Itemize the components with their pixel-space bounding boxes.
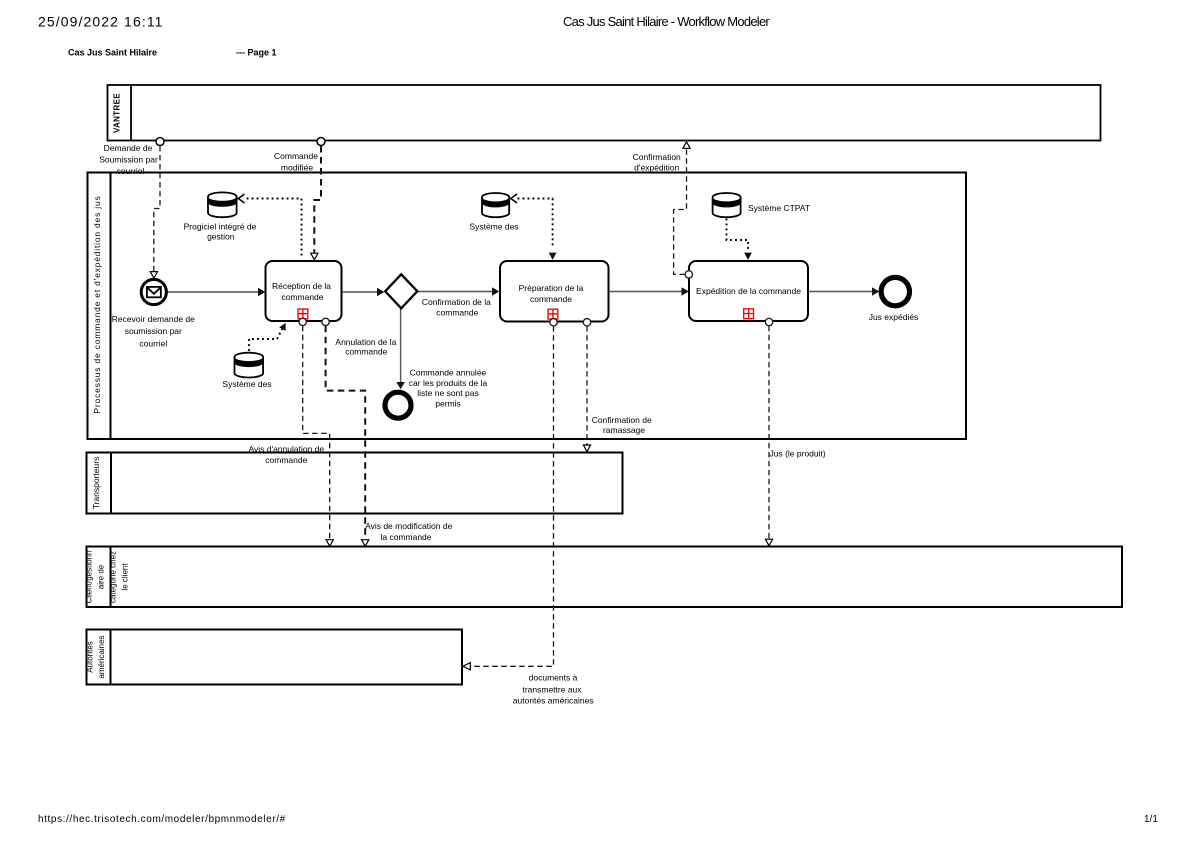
svg-text:Avis de modification de: Avis de modification de [365, 521, 453, 531]
svg-text:Préparation de la: Préparation de la [519, 283, 584, 293]
svg-text:--- Page 1: --- Page 1 [236, 48, 277, 58]
svg-text:Avis d'annulation de: Avis d'annulation de [248, 444, 324, 454]
svg-text:Système des: Système des [222, 379, 271, 389]
svg-text:permis: permis [435, 398, 461, 408]
svg-text:Système des: Système des [469, 222, 518, 232]
svg-text:catégorie chez: catégorie chez [109, 551, 118, 603]
svg-text:Client/gestionn: Client/gestionn [85, 551, 94, 604]
svg-text:Commande: Commande [274, 151, 318, 161]
svg-text:gestion: gestion [207, 232, 235, 242]
svg-text:Transporteurs: Transporteurs [91, 457, 101, 510]
svg-text:Système CTPAT: Système CTPAT [748, 203, 810, 213]
svg-text:Annulation de la: Annulation de la [335, 337, 396, 347]
svg-text:25/09/2022 16:11: 25/09/2022 16:11 [38, 14, 164, 30]
svg-text:documents à: documents à [529, 673, 578, 683]
svg-text:transmettre aux: transmettre aux [522, 685, 582, 695]
svg-text:Expédition de la commande: Expédition de la commande [696, 286, 801, 296]
svg-text:Soumission par: Soumission par [99, 155, 158, 165]
svg-text:Commande annulée: Commande annulée [410, 368, 487, 378]
svg-text:courriel: courriel [117, 166, 145, 176]
svg-text:commande: commande [265, 455, 307, 465]
svg-text:Jus expédiés: Jus expédiés [869, 312, 919, 322]
svg-text:1/1: 1/1 [1144, 814, 1158, 825]
svg-text:liste ne sont pas: liste ne sont pas [417, 388, 478, 398]
svg-text:VANTREE: VANTREE [113, 93, 122, 133]
svg-text:soumission par: soumission par [125, 326, 182, 336]
svg-text:Progiciel intégré de: Progiciel intégré de [184, 222, 257, 232]
svg-text:Cas Jus Saint Hilaire - Workfl: Cas Jus Saint Hilaire - Workflow Modeler [563, 14, 770, 29]
svg-text:Confirmation de la: Confirmation de la [422, 297, 491, 307]
svg-text:commande: commande [436, 308, 478, 318]
svg-text:autorités américaines: autorités américaines [513, 696, 594, 706]
svg-text:le client: le client [121, 563, 130, 591]
svg-text:la commande: la commande [380, 532, 431, 542]
svg-text:aire de: aire de [97, 564, 106, 589]
svg-text:commande: commande [530, 294, 572, 304]
svg-text:Réception de la: Réception de la [272, 281, 331, 291]
svg-text:Jus (le produit): Jus (le produit) [770, 449, 826, 459]
svg-text:https://hec.trisotech.com/mode: https://hec.trisotech.com/modeler/bpmnmo… [38, 814, 286, 825]
svg-text:courriel: courriel [139, 339, 167, 349]
svg-text:Confirmation de: Confirmation de [592, 415, 652, 425]
svg-text:Processus de commande et d'exp: Processus de commande et d'expédition de… [92, 195, 102, 413]
svg-text:ramassage: ramassage [603, 425, 645, 435]
svg-text:Demande de: Demande de [104, 143, 153, 153]
svg-text:Confirmation: Confirmation [633, 152, 681, 162]
svg-text:modifiée: modifiée [281, 163, 313, 173]
svg-text:car les produits de la: car les produits de la [409, 378, 488, 388]
svg-text:commande: commande [345, 347, 387, 357]
svg-text:d'expédition: d'expédition [634, 163, 679, 173]
svg-text:Autorités: Autorités [86, 641, 95, 673]
svg-text:commande: commande [281, 292, 323, 302]
svg-text:Recevoir demande de: Recevoir demande de [112, 314, 195, 324]
svg-text:américaines: américaines [97, 635, 106, 678]
svg-text:Cas Jus Saint Hilaire: Cas Jus Saint Hilaire [68, 48, 157, 58]
